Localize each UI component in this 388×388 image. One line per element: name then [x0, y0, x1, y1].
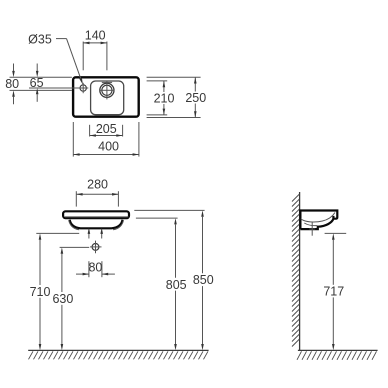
side profile basin	[300, 211, 337, 230]
svg-text:850: 850	[193, 273, 214, 287]
tap hole vertical tick	[82, 83, 84, 93]
floor left hatching	[29, 351, 209, 359]
svg-text:717: 717	[323, 285, 344, 299]
fixing hole arrows	[88, 233, 90, 239]
svg-text:205: 205	[96, 122, 117, 136]
basin interior lower curve	[304, 223, 317, 226]
floor right hatching	[297, 351, 377, 360]
basin interior curve	[301, 213, 335, 223]
svg-text:630: 630	[52, 292, 73, 306]
extension line hole axis	[29, 87, 80, 89]
basin underside	[70, 220, 123, 229]
trap hole horizontal tick	[90, 246, 102, 248]
reference line trap height (630)	[60, 246, 90, 248]
faucet centerline horizontal	[99, 89, 114, 91]
reference line under basin (717)	[325, 232, 347, 234]
trap hole circle	[92, 244, 99, 251]
front rim inner line	[65, 216, 129, 218]
svg-text:710: 710	[30, 285, 51, 299]
basin inner bowl	[91, 81, 124, 115]
trap hole vertical tick	[95, 241, 97, 254]
floor right line	[298, 349, 378, 351]
reference line rim bottom (805)	[136, 217, 178, 219]
reference line rim top (850)	[134, 209, 204, 211]
svg-text:210: 210	[154, 91, 175, 105]
wall hatching	[292, 194, 299, 346]
svg-text:65: 65	[30, 76, 44, 90]
faucet hole inner circle	[102, 85, 112, 95]
svg-text:250: 250	[185, 91, 206, 105]
leader line D35	[56, 38, 67, 40]
fixing cross vertical	[311, 222, 313, 236]
svg-text:80: 80	[5, 77, 19, 91]
leader arrowhead	[79, 78, 83, 85]
front rim slab	[63, 211, 129, 218]
wall line	[299, 192, 301, 350]
svg-text:400: 400	[98, 140, 119, 154]
faucet top tick	[102, 81, 112, 83]
extension line faucet axis	[10, 89, 72, 91]
underside thin crescent left	[69, 220, 80, 230]
svg-text:280: 280	[87, 178, 108, 192]
svg-text:Ø35: Ø35	[28, 32, 52, 46]
floor left line	[28, 349, 208, 351]
top view outline (400x250 basin rim)	[73, 77, 139, 116]
svg-text:80: 80	[88, 261, 102, 275]
underside thin crescent right	[113, 220, 124, 230]
svg-text:805: 805	[166, 278, 187, 292]
faucet hole outer circle	[100, 83, 114, 97]
fixing cross horizontal	[309, 228, 315, 230]
80 arrows	[13, 64, 15, 72]
extension line top edge	[10, 76, 72, 78]
side lip notch	[332, 216, 334, 219]
tap hole D35 circle	[80, 85, 86, 91]
faucet centerline vertical	[106, 81, 108, 100]
svg-text:140: 140	[85, 29, 106, 43]
tap hole horizontal tick	[78, 87, 88, 89]
reference line fixing height (710)	[36, 232, 79, 234]
